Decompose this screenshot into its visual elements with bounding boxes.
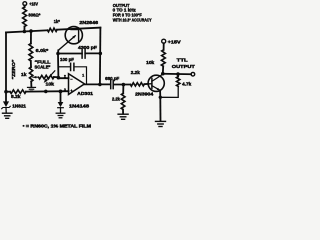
label 1N821 xyxy=(12,103,26,108)
svg-text:2.2k: 2.2k xyxy=(112,97,121,102)
label TTL OUTPUT xyxy=(172,58,195,70)
wire bottom bus right xyxy=(26,90,69,92)
wire 4300pF right xyxy=(85,52,100,54)
op-amp U1 AD301 xyxy=(64,74,85,95)
wire left rail xyxy=(5,32,7,91)
svg-text:2N3904: 2N3904 xyxy=(135,92,154,97)
label 4300 pF xyxy=(78,45,97,50)
label 1k (ZERO pot) xyxy=(21,72,27,77)
wiper arrow of ZERO pot xyxy=(33,76,39,79)
wire R3 to ZERO pot xyxy=(30,61,32,67)
svg-text:1: 1 xyxy=(82,74,84,78)
wire R8 top lead xyxy=(177,74,179,77)
wire zener top lead xyxy=(5,92,7,102)
node summing rail at FULL SCALE pot xyxy=(57,76,61,80)
wire bottom bus left xyxy=(6,91,10,93)
label AD301 xyxy=(77,91,93,96)
label +15V (right) xyxy=(168,39,181,44)
svg-text:2: 2 xyxy=(64,75,66,79)
label 6.0k* xyxy=(36,48,49,53)
terminal +15V (right supply) xyxy=(162,39,166,43)
ground (R6) xyxy=(118,114,128,119)
svg-text:1N821: 1N821 xyxy=(12,103,26,108)
label 2.2k (base) xyxy=(131,70,141,75)
label 2N2646 xyxy=(79,20,98,25)
transistor Q1 2N2646 (UJT) xyxy=(58,27,82,51)
svg-text:WITH ±0.3° ACCURACY: WITH ±0.3° ACCURACY xyxy=(113,18,152,23)
svg-text:1k: 1k xyxy=(21,72,27,77)
svg-text:• = RN60C, 1% METAL FILM: • = RN60C, 1% METAL FILM xyxy=(23,123,92,128)
svg-text:1k*: 1k* xyxy=(54,19,60,24)
label 680 pF xyxy=(105,76,119,81)
wire Q2 emitter down xyxy=(159,90,161,97)
svg-text:806Ω*: 806Ω* xyxy=(28,13,40,18)
capacitor C2 4300pF xyxy=(82,49,85,58)
resistor R3 6.0k xyxy=(29,44,33,62)
diode D2 1N4148 xyxy=(58,102,64,113)
node TTL wire at R8 xyxy=(176,72,180,76)
wire 680pF to node xyxy=(114,84,130,86)
svg-text:TTL: TTL xyxy=(177,58,188,63)
wire top bus left segment xyxy=(6,30,47,32)
resistor R8 4.7k xyxy=(176,77,180,87)
svg-text:“ZERO”: “ZERO” xyxy=(11,59,17,80)
label 806ohm* xyxy=(28,13,40,18)
svg-text:6.0k*: 6.0k* xyxy=(36,48,49,53)
svg-text:AD301: AD301 xyxy=(77,91,93,96)
wire +15V terminal to R1 xyxy=(24,6,26,8)
resistor R5 2.2k (base) xyxy=(130,83,144,87)
label 2N3904 xyxy=(135,92,154,97)
svg-text:+15V: +15V xyxy=(29,1,38,6)
ground (zener) xyxy=(3,113,12,118)
wire 100pF branch left xyxy=(58,66,70,68)
label 10k (collector) xyxy=(146,60,155,65)
wire R8 to emitter rail xyxy=(160,86,178,97)
svg-text:100 pF: 100 pF xyxy=(60,57,74,62)
node emitter rail xyxy=(159,96,162,99)
wire UJT emitter to summing junction xyxy=(57,50,59,53)
terminal +15V (left supply) xyxy=(23,2,27,6)
svg-text:3: 3 xyxy=(64,88,66,92)
svg-text:680 pF: 680 pF xyxy=(105,76,119,81)
svg-text:2.2k: 2.2k xyxy=(131,70,141,75)
capacitor C1 100pF xyxy=(71,63,74,70)
resistor R4 8.2k xyxy=(10,90,26,94)
wire right supply to R7 xyxy=(163,43,165,50)
capacitor C3 680pF xyxy=(111,80,114,88)
label ZERO (rotated) xyxy=(11,59,17,80)
svg-text:10k: 10k xyxy=(46,81,55,86)
resistor R1 806ohm xyxy=(23,7,27,27)
node top bus at R1 xyxy=(23,30,27,34)
label FULL SCALE xyxy=(35,60,51,70)
label 2.2k (to ground) xyxy=(112,97,121,102)
wire 100pF branch to output xyxy=(75,67,87,85)
wire D2 top lead xyxy=(60,91,62,102)
resistor R6 2.2k (to ground) xyxy=(121,93,125,109)
wire R7 to collector node xyxy=(162,66,164,74)
wire ZERO pot to ground xyxy=(30,82,32,87)
ground (D2) xyxy=(56,113,65,118)
wire summing rail xyxy=(58,54,69,79)
potentiometer ZERO 1k body xyxy=(29,67,33,82)
wire R1 to top bus xyxy=(23,27,25,32)
wire R6 to ground xyxy=(122,110,124,114)
ground (ZERO pot) xyxy=(28,87,36,91)
svg-text:+15V: +15V xyxy=(168,39,181,44)
node right vertical at 4300pF xyxy=(99,52,103,56)
ground (Q2 emitter) xyxy=(156,121,166,126)
node output at right vertical xyxy=(98,83,102,87)
note OUTPUT spec xyxy=(113,3,152,23)
label 4.7k xyxy=(182,82,192,87)
svg-text:10k: 10k xyxy=(146,60,155,65)
svg-text:SCALE”: SCALE” xyxy=(35,65,51,70)
node top bus at R3 xyxy=(29,29,33,33)
wire R5 to Q2 base xyxy=(144,83,148,85)
label 10k (FULL SCALE pot) xyxy=(46,81,55,86)
node bottom bus (wiper tie) xyxy=(44,90,48,94)
label +15V (left) xyxy=(29,1,38,6)
wire 4300pF left xyxy=(58,53,82,55)
resistor R7 10k xyxy=(161,50,165,66)
wire right vertical bus-to-output xyxy=(99,28,102,85)
wire top bus right segment xyxy=(57,28,100,30)
label 8.2k xyxy=(11,94,21,99)
resistor R2 1k (in top bus) xyxy=(47,28,57,32)
node at 2.2k divider xyxy=(122,83,126,87)
svg-text:1N4148: 1N4148 xyxy=(69,103,90,108)
wire 2.2k divider top lead xyxy=(122,85,124,94)
label 100 pF xyxy=(60,57,74,62)
wire bus to R3 xyxy=(30,31,32,43)
node bottom bus at zener xyxy=(4,90,8,94)
node summing junction xyxy=(56,52,60,56)
svg-text:4300 pF: 4300 pF xyxy=(78,45,97,50)
terminal TTL OUTPUT xyxy=(191,72,195,76)
svg-text:2N2646: 2N2646 xyxy=(79,20,98,25)
potentiometer FULL SCALE 10k body xyxy=(39,75,55,79)
svg-text:4.7k: 4.7k xyxy=(182,82,192,87)
transistor Q2 2N3904 xyxy=(148,74,164,92)
zener D1 1N821 xyxy=(2,101,11,112)
node bottom bus at D2 xyxy=(59,90,63,94)
svg-text:8.2k: 8.2k xyxy=(11,94,21,99)
wire TTL output xyxy=(163,73,191,75)
wire FULL SCALE pot to summing rail xyxy=(54,76,58,78)
footnote metal film xyxy=(23,123,92,128)
wiper arrow of FULL SCALE pot xyxy=(44,71,55,83)
wire emitter rail to ground xyxy=(159,97,161,121)
label 1k* xyxy=(54,19,60,24)
node collector / TTL xyxy=(161,72,165,76)
wire op-amp output xyxy=(85,83,110,85)
label 1N4148 xyxy=(69,103,90,108)
svg-text:OUTPUT: OUTPUT xyxy=(172,64,195,69)
